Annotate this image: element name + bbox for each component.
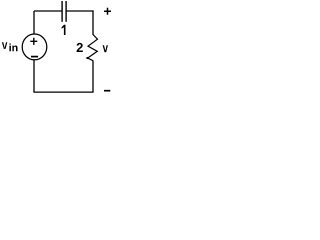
wire bottom horizontal segment xyxy=(33,91,93,93)
node + polarity label top right xyxy=(104,8,111,15)
voltage source + sign xyxy=(30,38,37,45)
source label v of vin xyxy=(2,42,7,49)
voltage source V1 circle xyxy=(22,34,47,60)
resistor junction dot xyxy=(86,57,88,59)
voltage source - sign xyxy=(31,56,38,58)
source label subscript in xyxy=(9,44,17,52)
resistor R zigzag xyxy=(88,35,98,61)
wire right vertical bottom lead xyxy=(92,61,94,93)
capacitor C right plate xyxy=(65,1,67,22)
capacitor C left plate xyxy=(61,1,63,22)
wire right vertical top lead xyxy=(92,10,94,35)
node - polarity label bottom right xyxy=(104,90,110,92)
capacitor value label 1 xyxy=(62,25,66,35)
wire top-right horizontal segment xyxy=(67,10,94,12)
wire top-left horizontal segment xyxy=(34,10,62,12)
node v output label xyxy=(103,45,108,52)
wire left vertical top lead xyxy=(33,11,35,34)
wire left vertical bottom lead xyxy=(33,60,35,93)
resistor value label 2 xyxy=(77,43,83,52)
